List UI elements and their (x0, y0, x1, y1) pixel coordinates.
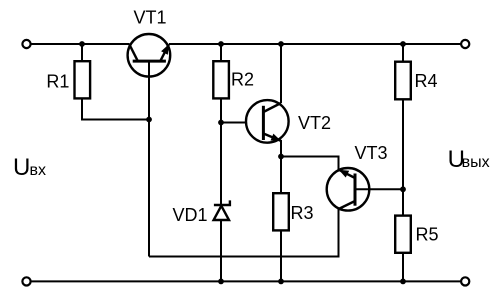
svg-text:U: U (13, 154, 30, 181)
node: junction R2 / VT2 base (218, 120, 224, 126)
svg-text:VD1: VD1 (173, 205, 208, 225)
wire: VD1 to bottom rail (220, 221, 222, 282)
transistor VT2 emitter lead with arrow (263, 134, 281, 141)
zener diode VD1 (214, 200, 230, 220)
transistor VT1 emitter lead with arrow (160, 44, 169, 61)
node: junction top rail / R1 (79, 41, 85, 47)
svg-text:вх: вх (30, 162, 47, 179)
wire: top rail to R2 (220, 44, 222, 62)
svg-text:R5: R5 (416, 225, 439, 245)
node: junction R5 / bottom rail (400, 279, 406, 285)
wire: top rail to R4 (402, 44, 404, 62)
wire: feedback line along bottom (VT1 base to VT3 collector) (149, 209, 339, 257)
wire: R1 bottom to VT1 base line (82, 98, 149, 119)
node: junction VT2 emitter / R3 / VT3 emitter (278, 154, 284, 160)
transistor VT2 base bar (262, 106, 265, 140)
node: junction R3 / bottom rail (278, 279, 284, 285)
svg-text:R2: R2 (231, 70, 254, 90)
node: junction VD1 / bottom rail (218, 279, 224, 285)
wire: top rail, VT1 emitter to output terminal (169, 43, 461, 45)
transistor VT3 emitter lead with arrow (339, 170, 355, 178)
wire: R4 to R5 (402, 99, 404, 216)
wire: R3 to bottom rail (280, 230, 282, 281)
transistor VT2 (circle) (246, 100, 289, 143)
resistor R4 (395, 62, 411, 100)
wire: node to R3 (280, 157, 282, 194)
wire: VT2 emitter node to VT3 emitter (281, 157, 339, 170)
wire: R5 to bottom rail (402, 253, 404, 282)
transistor VT3 collector lead (339, 201, 355, 209)
node label: net Uvx (input voltage) (13, 154, 46, 181)
svg-text:R4: R4 (415, 71, 438, 91)
transistor VT1 base bar (133, 60, 166, 63)
wire: bottom rail (31, 280, 462, 282)
terminal: input top (left, +) (22, 40, 30, 48)
resistor R2 (213, 61, 229, 98)
svg-text:R1: R1 (46, 72, 69, 92)
wire: top rail, input terminal to VT1 collector (31, 43, 130, 45)
svg-text:VT3: VT3 (355, 143, 388, 163)
transistor VT3 (circle) (327, 168, 370, 211)
wire: top rail to R1 (81, 44, 83, 62)
wire: R2 bottom to VD1 (220, 98, 222, 204)
transistor VT1 collector lead (129, 44, 138, 61)
svg-text:VT2: VT2 (298, 113, 331, 133)
resistor R3 (273, 193, 289, 230)
resistor R1 (75, 61, 91, 98)
wire: VT3 base lead to R4/R5 node (355, 188, 403, 190)
resistor R5 (395, 216, 411, 253)
svg-text:R3: R3 (291, 203, 314, 223)
terminal: output bottom (right, -) (461, 277, 469, 285)
wire: VT2 emitter down to R3 node (280, 140, 282, 157)
node: junction R1 wire / VT1 base line (146, 117, 152, 123)
terminal: input bottom (left, -) (22, 277, 30, 285)
node label: net Uvyx (output voltage) (448, 146, 490, 173)
node: junction top rail / R4 (400, 41, 406, 47)
transistor VT1 (circle) (128, 34, 171, 77)
svg-text:VT1: VT1 (134, 8, 167, 28)
node: junction top rail / R2 (218, 41, 224, 47)
node: junction top rail / VT2 collector (278, 41, 284, 47)
wire: top rail down to VT2 collector (280, 44, 282, 103)
node: junction R4 / R5 / VT3 base (400, 186, 406, 192)
svg-text:вых: вых (462, 154, 490, 171)
terminal: output top (right, +) (461, 40, 469, 48)
wire: VT2 base lead from R2/VD1 node (221, 122, 263, 124)
wire: VT1 base down to feedback line (148, 62, 150, 257)
transistor VT2 collector lead (263, 103, 281, 112)
transistor VT3 base bar (354, 174, 357, 206)
